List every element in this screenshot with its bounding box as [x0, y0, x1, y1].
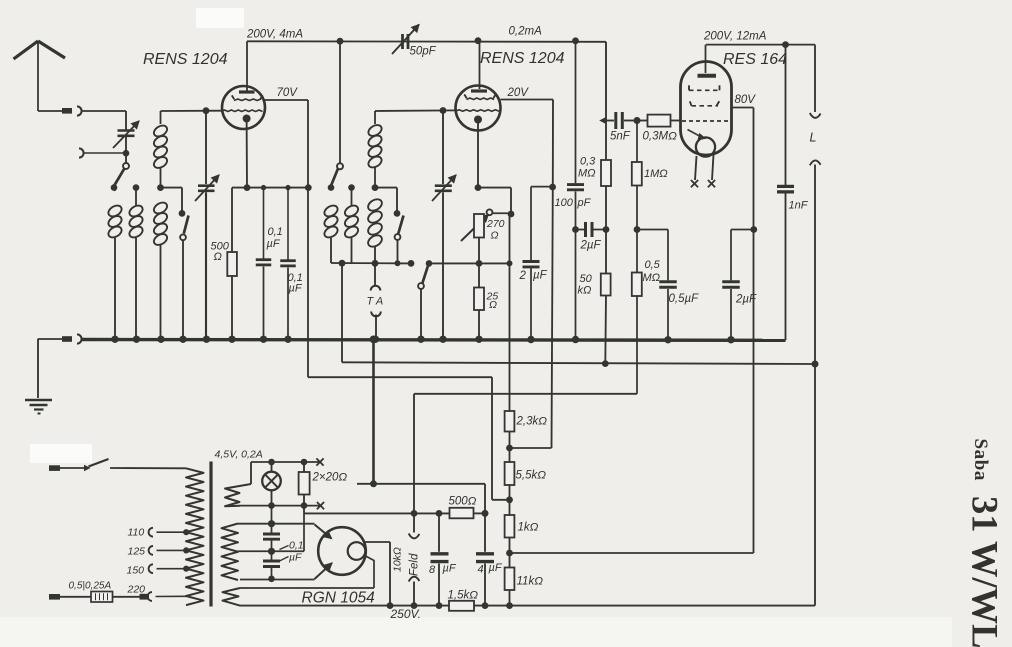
svg-text:0,5µF: 0,5µF: [669, 293, 700, 305]
svg-text:2,3kΩ: 2,3kΩ: [516, 416, 548, 428]
svg-text:5nF: 5nF: [610, 131, 631, 143]
svg-text:MΩ: MΩ: [578, 168, 596, 180]
svg-text:200V, 12mA: 200V, 12mA: [703, 31, 767, 43]
svg-text:0,1: 0,1: [268, 226, 283, 238]
svg-text:MΩ: MΩ: [643, 272, 661, 284]
svg-text:1MΩ: 1MΩ: [644, 168, 668, 180]
svg-text:220: 220: [127, 584, 146, 596]
svg-text:RENS 1204: RENS 1204: [143, 51, 228, 68]
svg-text:10kΩ: 10kΩ: [392, 547, 404, 572]
svg-text:µF: µF: [489, 562, 503, 574]
svg-text:µF: µF: [443, 563, 457, 575]
svg-text:RGN 1054: RGN 1054: [302, 590, 376, 607]
svg-text:1nF: 1nF: [789, 200, 809, 212]
svg-text:µF: µF: [289, 552, 302, 564]
svg-text:pF: pF: [577, 197, 592, 209]
svg-text:500Ω: 500Ω: [449, 496, 477, 508]
svg-text:11kΩ: 11kΩ: [517, 576, 544, 588]
svg-text:80V: 80V: [735, 94, 757, 106]
svg-text:µF: µF: [267, 238, 281, 250]
svg-text:0,5: 0,5: [645, 259, 661, 271]
svg-text:20V: 20V: [507, 87, 530, 99]
svg-text:0,1: 0,1: [289, 540, 304, 552]
svg-text:0,5|0,25A: 0,5|0,25A: [69, 581, 112, 592]
svg-text:110: 110: [128, 527, 145, 539]
svg-text:5,5kΩ: 5,5kΩ: [516, 470, 547, 482]
svg-text:100: 100: [555, 197, 574, 209]
svg-text:0,3: 0,3: [580, 156, 596, 168]
svg-text:270: 270: [486, 218, 505, 230]
svg-text:250V.: 250V.: [390, 607, 421, 621]
svg-text:Ω: Ω: [489, 299, 497, 311]
svg-text:70V: 70V: [277, 87, 299, 99]
svg-text:0,2mA: 0,2mA: [509, 26, 543, 38]
svg-text:L: L: [810, 131, 817, 145]
svg-text:RENS 1204: RENS 1204: [480, 50, 565, 67]
svg-text:µF: µF: [533, 270, 548, 282]
svg-text:1kΩ: 1kΩ: [518, 522, 539, 534]
svg-text:200V, 4mA: 200V, 4mA: [246, 29, 303, 41]
svg-text:8: 8: [429, 564, 436, 576]
svg-text:1,5kΩ: 1,5kΩ: [448, 590, 479, 602]
svg-text:µF: µF: [289, 283, 303, 295]
svg-text:2: 2: [519, 270, 527, 282]
svg-text:50pF: 50pF: [410, 46, 437, 58]
svg-text:2×20Ω: 2×20Ω: [312, 472, 348, 484]
svg-text:Feld: Feld: [409, 553, 421, 576]
svg-text:RES 164: RES 164: [723, 51, 787, 68]
svg-text:50: 50: [580, 273, 593, 285]
svg-text:Ω: Ω: [491, 230, 499, 242]
svg-text:Saba: Saba: [970, 439, 991, 482]
svg-text:150: 150: [127, 565, 145, 577]
svg-text:0,3MΩ: 0,3MΩ: [643, 131, 678, 143]
svg-text:Ω: Ω: [214, 251, 222, 263]
svg-text:4: 4: [478, 564, 484, 576]
svg-text:2µF: 2µF: [580, 240, 602, 252]
svg-text:2µF: 2µF: [735, 294, 757, 306]
svg-text:125: 125: [128, 546, 146, 558]
svg-text:kΩ: kΩ: [578, 285, 592, 297]
svg-text:31 W/WL: 31 W/WL: [965, 496, 1006, 647]
svg-text:4,5V, 0,2A: 4,5V, 0,2A: [215, 449, 263, 461]
svg-text:T A: T A: [367, 296, 384, 308]
